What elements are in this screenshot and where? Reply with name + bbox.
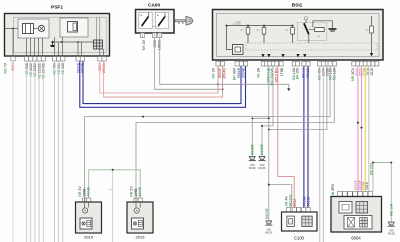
- svg-text:6004: 6004: [351, 236, 361, 241]
- wire 10A RD to lamp 2015: [136, 66, 334, 198]
- svg-text:2010: 2010: [84, 235, 94, 240]
- riser pink pin F: [217, 66, 219, 93]
- svg-text:9001B: 9001B: [237, 67, 241, 78]
- pink wire 8505 BSI1 to 6004: [357, 66, 359, 192]
- relay module K1 inside PSF1: [18, 19, 49, 38]
- junction: [226, 25, 228, 27]
- wire 361 off page: [58, 61, 60, 242]
- wire 8004 off page: [12, 61, 14, 242]
- riser pink pin G: [222, 66, 224, 97]
- box lamp 2010: [76, 202, 102, 233]
- wire 206B to ground net A: [269, 66, 327, 130]
- svg-text:9011B: 9011B: [307, 196, 311, 207]
- switch contact 1: [139, 13, 152, 29]
- svg-text:40/VE: 40/VE: [87, 186, 91, 196]
- key icon: [175, 16, 193, 25]
- svg-text:OR 2V: OR 2V: [211, 67, 215, 78]
- wire 1010 BSI1 to 6004: [368, 66, 370, 192]
- lamp 2010 pin labels: [78, 186, 90, 197]
- blue wire 9011B BSI1 to C100: [307, 66, 309, 208]
- svg-text:8504F: 8504F: [218, 68, 222, 78]
- junction: [247, 25, 249, 27]
- green ground wire from 6004: [373, 163, 391, 223]
- junction: [112, 169, 114, 171]
- ground in BSI1: [329, 29, 337, 31]
- svg-text:40/VE: 40/VE: [138, 186, 142, 196]
- box CA00: [136, 10, 175, 34]
- lamp 2015 pins: [134, 198, 138, 202]
- lamp 2015 pin labels: [130, 186, 142, 197]
- switch contact 2: [155, 13, 168, 29]
- svg-text:NR 40V: NR 40V: [232, 67, 236, 80]
- bulb symbol 2015: [134, 208, 139, 213]
- wire 2282E off page: [38, 61, 40, 242]
- wire 2104 down off page: [322, 66, 324, 242]
- box C100: [282, 212, 318, 231]
- fuse F4 right in BSI1: [365, 16, 373, 56]
- wires module to pins: [55, 37, 82, 57]
- blue wire 9004B PSF1 to BSI1: [80, 61, 246, 107]
- pink wire 8506 BSI1 to 6004: [361, 66, 363, 192]
- svg-text:9004B: 9004B: [241, 67, 245, 78]
- junction: [142, 116, 144, 118]
- junction: [263, 25, 265, 27]
- blue wire 9001B PSF1 to BSI1: [83, 61, 241, 104]
- svg-text:MC01: MC01: [265, 231, 272, 235]
- lamp module icon 2015: [132, 218, 144, 229]
- lamp 2010 pins: [82, 198, 86, 202]
- junction: [268, 184, 270, 186]
- C100 pin labels: [285, 194, 311, 206]
- splice on 8505: [357, 122, 359, 124]
- svg-text:VE 2A: VE 2A: [256, 67, 260, 78]
- lamp module icon 2010: [80, 218, 92, 229]
- BSI1 pin labels (vertical): [211, 67, 373, 85]
- wire 40V BB down off page: [319, 66, 321, 242]
- wire 10V RD to lamp 2010: [85, 66, 331, 198]
- inner frame PSF1: [14, 17, 107, 52]
- svg-text:MC46: MC46: [249, 166, 256, 170]
- box lamp 2015: [127, 202, 153, 233]
- junction: [390, 162, 392, 164]
- wire 1950 CA00 to BSI1: [154, 38, 222, 90]
- 6004 pins: [338, 192, 373, 197]
- wires from frame top to connector icon PSF1: [96, 17, 98, 40]
- CA00 pin labels: [142, 39, 162, 50]
- wires relay to pins: [27, 38, 43, 57]
- wire 362 off page: [62, 61, 64, 242]
- svg-text:8510: 8510: [293, 199, 297, 207]
- svg-text:MC 10A: MC 10A: [390, 203, 394, 216]
- svg-text:BA 150: BA 150: [296, 68, 300, 79]
- svg-text:NG 7V: NG 7V: [3, 62, 7, 73]
- fuse F1 in BSI1: [240, 26, 249, 36]
- yellow wire 2T4A BSI1 to 6004: [364, 66, 366, 192]
- fuse F3 in BSI1: [285, 26, 294, 36]
- svg-text:CA00: CA00: [148, 3, 161, 9]
- svg-text:JN 2RV: JN 2RV: [331, 183, 335, 196]
- pink wire 8504 PSF1 to BSI1: [100, 61, 218, 93]
- box BSI1: [213, 10, 384, 61]
- svg-text:PSF1: PSF1: [51, 5, 63, 11]
- connector grid icon in PSF1: [94, 40, 104, 57]
- ground wire net B from BSI1: [262, 66, 273, 131]
- wire 1950A CA00 to BSI1 and C100: [160, 38, 289, 89]
- svg-text:MC05: MC05: [388, 232, 395, 236]
- green lamp-return bus: [89, 170, 141, 198]
- svg-text:MC46: MC46: [259, 166, 266, 170]
- splice on 8506: [361, 127, 363, 129]
- svg-text:8504G: 8504G: [223, 68, 227, 79]
- wire 22B2 off page: [34, 61, 36, 242]
- junction: [268, 129, 270, 131]
- connector arrows at BSI1 bottom: [261, 54, 306, 57]
- 6004 upper-left icon: [339, 202, 352, 214]
- link between contacts: [152, 26, 158, 28]
- junction node wire 1950 riser: [222, 88, 224, 90]
- red wire 8510 BSI1 to C100: [278, 66, 294, 208]
- relay in BSI1: [297, 17, 332, 41]
- C100 inner grid icon right: [302, 216, 312, 226]
- svg-text:F30: F30: [236, 20, 241, 24]
- junction node on PSF1 bus right: [77, 41, 79, 43]
- dashed function line in BSI1: [246, 43, 377, 50]
- svg-text:1T5B: 1T5B: [280, 67, 284, 76]
- svg-text:BSI1: BSI1: [292, 3, 303, 9]
- svg-text:1510: 1510: [370, 68, 374, 76]
- junction: [12, 28, 14, 30]
- svg-text:C100: C100: [294, 236, 305, 241]
- wire 76A off page: [53, 61, 55, 242]
- wire pin1 riser: [12, 29, 14, 57]
- green bus drop off page: [112, 170, 114, 242]
- junction node on PSF1 bus: [61, 41, 63, 43]
- C100 inner connector icon left: [287, 216, 294, 226]
- bulb symbol 2010: [83, 208, 88, 213]
- wire feed into PSF1: [5, 28, 19, 30]
- svg-text:MC46F: MC46F: [260, 144, 264, 155]
- wire 36B off page: [26, 61, 28, 242]
- wire 2040E off page: [42, 61, 44, 242]
- blue wire 9011A BSI1 to C100: [303, 66, 305, 208]
- internal drops to pins: [248, 34, 309, 43]
- svg-text:BT: BT: [317, 35, 321, 39]
- 6004 upper-right grid icon: [356, 202, 368, 214]
- svg-text:MC46F: MC46F: [251, 144, 255, 155]
- supply bus in BSI1: [227, 25, 293, 27]
- control module inside PSF1: [60, 18, 88, 37]
- internal bus PSF1: [52, 41, 95, 43]
- svg-text:2015: 2015: [136, 235, 146, 240]
- ground net A lower run to MC01 and C100: [269, 118, 292, 221]
- svg-text:1010: 1010: [365, 182, 369, 190]
- box 6004: [331, 197, 382, 233]
- junction: [268, 117, 270, 119]
- fuse F2 in BSI1: [256, 26, 265, 36]
- ground wire net A from BSI1: [252, 66, 268, 129]
- C100 pins: [287, 208, 311, 213]
- pink wire 8504A PSF1 to BSI1: [104, 61, 223, 97]
- 6004 wire labels: [354, 180, 369, 190]
- inner frame BSI1: [217, 14, 380, 57]
- PSF1 pin labels (vertical): [3, 62, 106, 78]
- 6004 lower icon panel: [344, 216, 372, 230]
- junction node wire 1950A riser: [217, 83, 219, 85]
- BSI1 pin row: [216, 62, 379, 67]
- junction: [292, 25, 294, 27]
- svg-text:MC/VE: MC/VE: [265, 208, 269, 219]
- PSF1 pin row: [11, 57, 106, 62]
- junction: [261, 125, 263, 127]
- junction: [372, 162, 374, 164]
- box PSF1: [5, 14, 110, 57]
- wire 2282 off page: [30, 61, 32, 242]
- svg-text:NR 2V: NR 2V: [142, 39, 146, 50]
- CA00 pin row: [140, 33, 161, 38]
- connector icon in BSI1: [227, 26, 244, 55]
- ground in PSF1: [50, 41, 55, 47]
